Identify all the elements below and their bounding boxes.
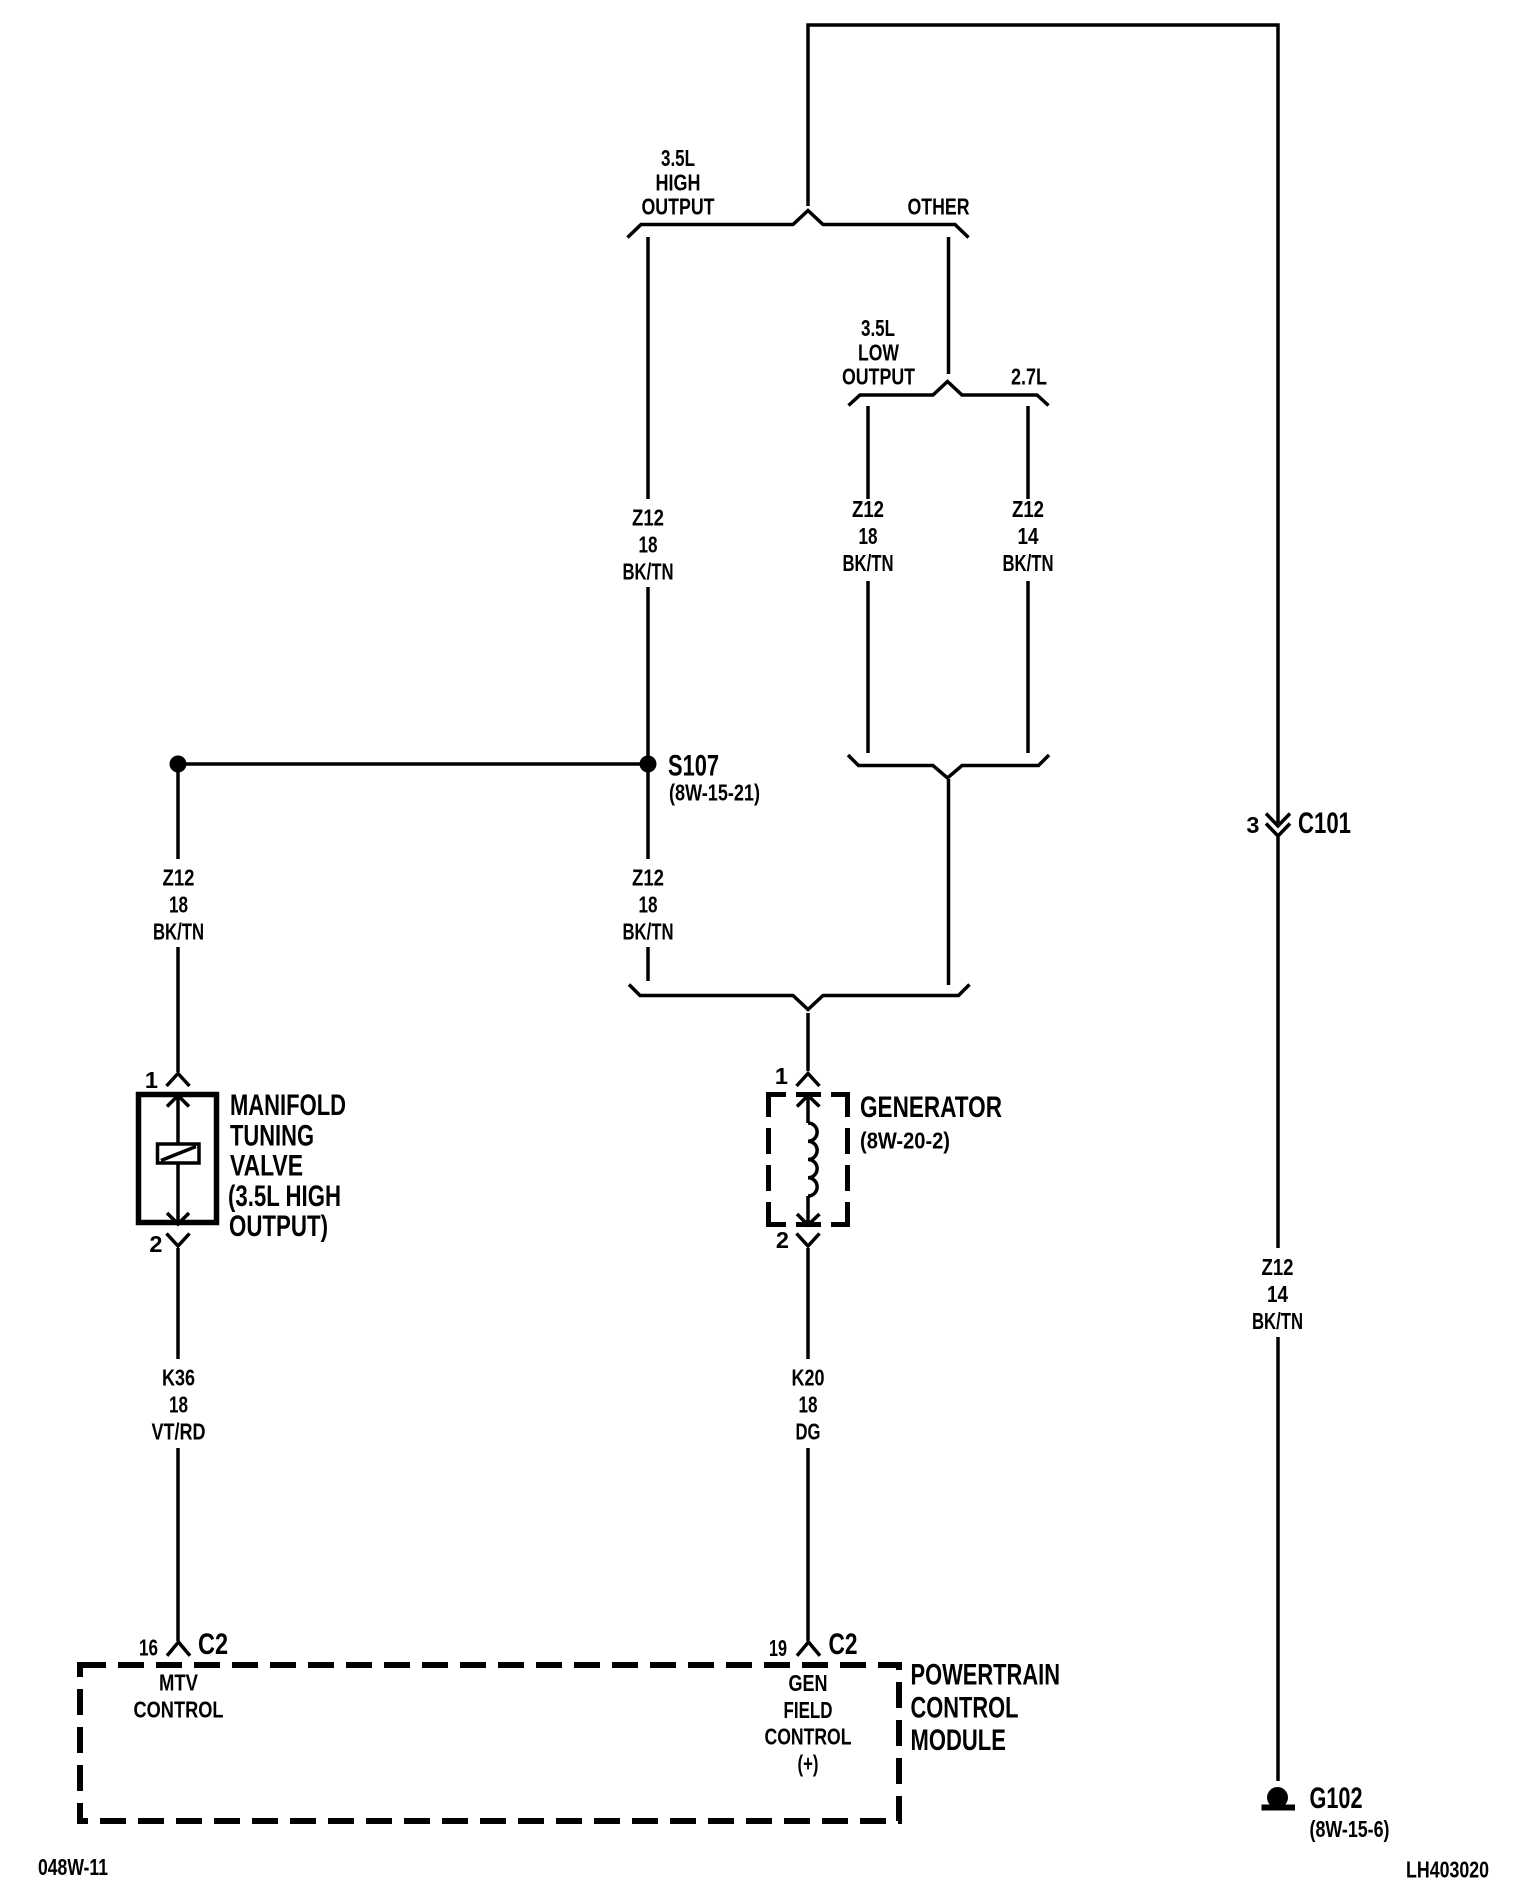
svg-text:18: 18	[859, 523, 878, 549]
svg-text:BK/TN: BK/TN	[153, 919, 204, 945]
powertrain control module dashed box	[80, 1665, 899, 1821]
label Z12 14 BK/TN (x1278)	[1252, 1254, 1303, 1334]
svg-text:MANIFOLD: MANIFOLD	[230, 1089, 346, 1122]
svg-text:BK/TN: BK/TN	[843, 550, 894, 576]
svg-text:Z12: Z12	[163, 865, 195, 891]
svg-text:OTHER: OTHER	[908, 194, 970, 220]
wire below big merge peak	[806, 1013, 810, 1071]
wire left drop from top split	[646, 237, 650, 499]
svg-text:19: 19	[769, 1635, 787, 1661]
svg-text:18: 18	[639, 532, 658, 558]
svg-text:(8W-20-2): (8W-20-2)	[860, 1128, 950, 1154]
svg-text:18: 18	[169, 1392, 188, 1418]
wire below merge2	[947, 779, 951, 985]
svg-text:BK/TN: BK/TN	[623, 559, 674, 585]
node dot left	[170, 756, 187, 773]
svg-text:1: 1	[775, 1063, 788, 1089]
label K20 18 DG	[792, 1365, 825, 1445]
svg-text:LH403020: LH403020	[1406, 1856, 1489, 1882]
svg-text:C101: C101	[1298, 807, 1351, 840]
pin 1 chevron (generator)	[797, 1074, 820, 1087]
svg-text:1: 1	[145, 1067, 158, 1093]
generator male pin arrow top	[797, 1096, 820, 1124]
svg-text:18: 18	[169, 892, 188, 918]
svg-text:18: 18	[799, 1392, 818, 1418]
svg-text:048W-11: 048W-11	[38, 1854, 108, 1880]
wire right main below C101	[1276, 837, 1280, 1781]
svg-text:G102: G102	[1310, 1782, 1363, 1815]
label Z12 18 BK/TN (x178)	[153, 865, 204, 945]
MTV solenoid valve rect	[158, 1144, 200, 1163]
svg-text:HIGH: HIGH	[656, 169, 701, 195]
split brace second (3.5L LOW OUTPUT / 2.7L)	[849, 382, 1049, 406]
pin 1 chevron (MTV)	[167, 1074, 190, 1087]
label Z12 18 BK/TN (x648 upper)	[623, 505, 674, 585]
svg-text:2: 2	[776, 1227, 789, 1253]
label MANIFOLD TUNING VALVE (3.5L HIGH OUTPUT)	[228, 1089, 346, 1243]
wire Z12 18 BK/TN branch upper (x648)	[646, 587, 650, 756]
svg-text:BK/TN: BK/TN	[623, 919, 674, 945]
svg-text:TUNING: TUNING	[230, 1119, 314, 1152]
svg-text:OUTPUT: OUTPUT	[842, 364, 915, 390]
MTV solenoid diagonal	[161, 1147, 196, 1161]
generator male pin arrow bottom	[797, 1196, 820, 1225]
split brace top (3.5L HIGH OUTPUT / OTHER)	[628, 211, 969, 238]
svg-text:(+): (+)	[798, 1751, 819, 1777]
manifold tuning valve box	[139, 1095, 217, 1223]
label GEN FIELD CONTROL (+)	[765, 1670, 852, 1777]
pin 2 chevron (generator)	[797, 1234, 820, 1247]
wire generator to PCM	[806, 1248, 810, 1641]
svg-text:C2: C2	[198, 1628, 228, 1661]
pin 19 chevron	[797, 1642, 820, 1656]
svg-text:14: 14	[1267, 1281, 1288, 1307]
label Z12 18 BK/TN (x648 lower)	[623, 865, 674, 945]
label Z12 18 BK/TN (x868)	[843, 496, 894, 576]
svg-text:MTV: MTV	[159, 1670, 198, 1696]
merge brace big (MTV column + generator column)	[629, 985, 970, 1010]
label 3.5L LOW OUTPUT	[842, 315, 915, 390]
svg-text:Z12: Z12	[1262, 1254, 1294, 1280]
wire top feed horizontal and right main vertical	[808, 25, 1278, 823]
label POWERTRAIN CONTROL MODULE	[911, 1659, 1061, 1758]
wire 2.7L drop (x1028)	[1026, 406, 1030, 753]
svg-text:DG: DG	[796, 1419, 821, 1445]
svg-text:VALVE: VALVE	[230, 1150, 303, 1183]
svg-text:(8W-15-6): (8W-15-6)	[1310, 1816, 1390, 1842]
svg-text:CONTROL: CONTROL	[765, 1724, 852, 1750]
merge brace (LOW OUTPUT + 2.7L)	[848, 755, 1049, 778]
svg-text:LOW: LOW	[858, 339, 900, 365]
label 3.5L HIGH OUTPUT	[642, 145, 715, 220]
svg-text:Z12: Z12	[632, 505, 664, 531]
generator dashed box	[766, 1092, 850, 1227]
svg-text:K20: K20	[792, 1365, 825, 1391]
svg-text:14: 14	[1018, 523, 1039, 549]
wire MTV to PCM	[176, 1248, 180, 1641]
wire S107 column below dot	[646, 772, 650, 981]
wire 3.5L LOW OUTPUT drop (x868)	[866, 406, 870, 753]
svg-text:18: 18	[639, 892, 658, 918]
svg-text:S107: S107	[668, 750, 719, 783]
svg-text:GENERATOR: GENERATOR	[860, 1091, 1002, 1124]
svg-text:CONTROL: CONTROL	[911, 1691, 1019, 1724]
wire right drop from top split	[947, 237, 951, 374]
splice wire S107 horizontal	[178, 762, 648, 766]
svg-text:Z12: Z12	[852, 496, 884, 522]
svg-text:GEN: GEN	[789, 1670, 828, 1696]
svg-text:FIELD: FIELD	[784, 1697, 833, 1723]
svg-text:3: 3	[1246, 812, 1259, 838]
svg-text:VT/RD: VT/RD	[152, 1419, 206, 1445]
svg-text:3.5L: 3.5L	[661, 145, 695, 171]
svg-text:16: 16	[139, 1635, 158, 1661]
node S107 dot right	[640, 756, 657, 773]
svg-text:Z12: Z12	[632, 865, 664, 891]
connector C101 double chevron	[1266, 814, 1290, 827]
svg-text:2: 2	[149, 1231, 162, 1257]
svg-text:2.7L: 2.7L	[1011, 364, 1047, 390]
label MTV CONTROL	[134, 1670, 224, 1723]
svg-text:CONTROL: CONTROL	[134, 1697, 224, 1723]
svg-text:K36: K36	[162, 1365, 195, 1391]
label K36 18 VT/RD	[152, 1365, 206, 1445]
ground G102 symbol	[1267, 1787, 1288, 1808]
svg-text:3.5L: 3.5L	[861, 315, 895, 341]
svg-text:Z12: Z12	[1012, 496, 1044, 522]
svg-text:C2: C2	[829, 1628, 858, 1661]
svg-text:MODULE: MODULE	[911, 1724, 1006, 1757]
svg-text:OUTPUT: OUTPUT	[642, 194, 715, 220]
svg-text:(8W-15-21): (8W-15-21)	[669, 780, 760, 806]
svg-text:BK/TN: BK/TN	[1252, 1308, 1303, 1334]
svg-text:POWERTRAIN: POWERTRAIN	[911, 1659, 1061, 1692]
pin 2 chevron (MTV)	[167, 1234, 190, 1247]
MTV male pin arrow bottom	[167, 1163, 189, 1224]
pin 16 chevron	[167, 1642, 190, 1656]
svg-text:OUTPUT): OUTPUT)	[229, 1210, 328, 1243]
wire left column below dot	[176, 772, 180, 1072]
generator field coil	[808, 1123, 817, 1196]
svg-text:BK/TN: BK/TN	[1003, 550, 1054, 576]
MTV male pin arrow top	[167, 1096, 189, 1145]
svg-text:(3.5L HIGH: (3.5L HIGH	[228, 1180, 341, 1213]
label Z12 14 BK/TN (x1028)	[1003, 496, 1054, 576]
